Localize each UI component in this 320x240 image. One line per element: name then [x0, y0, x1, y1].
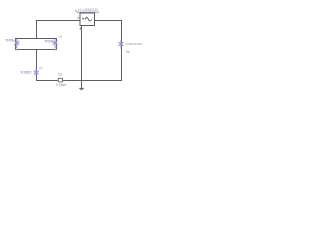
voltage source V4 box: [80, 13, 95, 30]
svg-text:Vln: Vln: [126, 50, 131, 54]
wire loop right side: [56, 39, 58, 50]
wire left riser lower: [36, 50, 38, 81]
svg-text:TR06: TR06: [5, 39, 14, 43]
svg-text:R16B2: R16B2: [21, 71, 32, 75]
label V4 VSINE underline: [75, 10, 99, 12]
ground: [79, 81, 85, 91]
polarity plus at left pin: [77, 17, 79, 19]
wire top-right horizontal: [95, 20, 123, 22]
svg-text:VDR14D431: VDR14D431: [126, 42, 144, 46]
fuse B1: [58, 78, 62, 82]
svg-text:0 Ohm: 0 Ohm: [56, 83, 66, 87]
svg-text:V1: V1: [39, 66, 43, 70]
wire loop bottom: [15, 49, 57, 51]
svg-text:V4: V4: [78, 8, 82, 12]
svg-text:B1: B1: [59, 73, 63, 77]
wire center vertical: [81, 26, 83, 81]
suppressor TR06 right: [53, 39, 58, 48]
pin foot left blob: [15, 49, 19, 51]
wire loop top: [15, 38, 57, 40]
wire loop left side: [15, 39, 17, 50]
svg-text:V2: V2: [59, 35, 63, 39]
svg-text:TR06: TR06: [44, 40, 53, 44]
wire left riser upper: [36, 20, 38, 39]
pin foot right blob: [54, 49, 58, 51]
wire bottom horizontal: [36, 80, 122, 82]
suppressor TR06 left: [14, 39, 19, 48]
varistor VDR right: [119, 40, 124, 48]
wire right vertical: [121, 20, 123, 81]
svg-text:VSINE230: VSINE230: [83, 8, 99, 12]
resistor R16 on riser: [34, 69, 39, 77]
wire top-left horizontal: [36, 20, 80, 22]
